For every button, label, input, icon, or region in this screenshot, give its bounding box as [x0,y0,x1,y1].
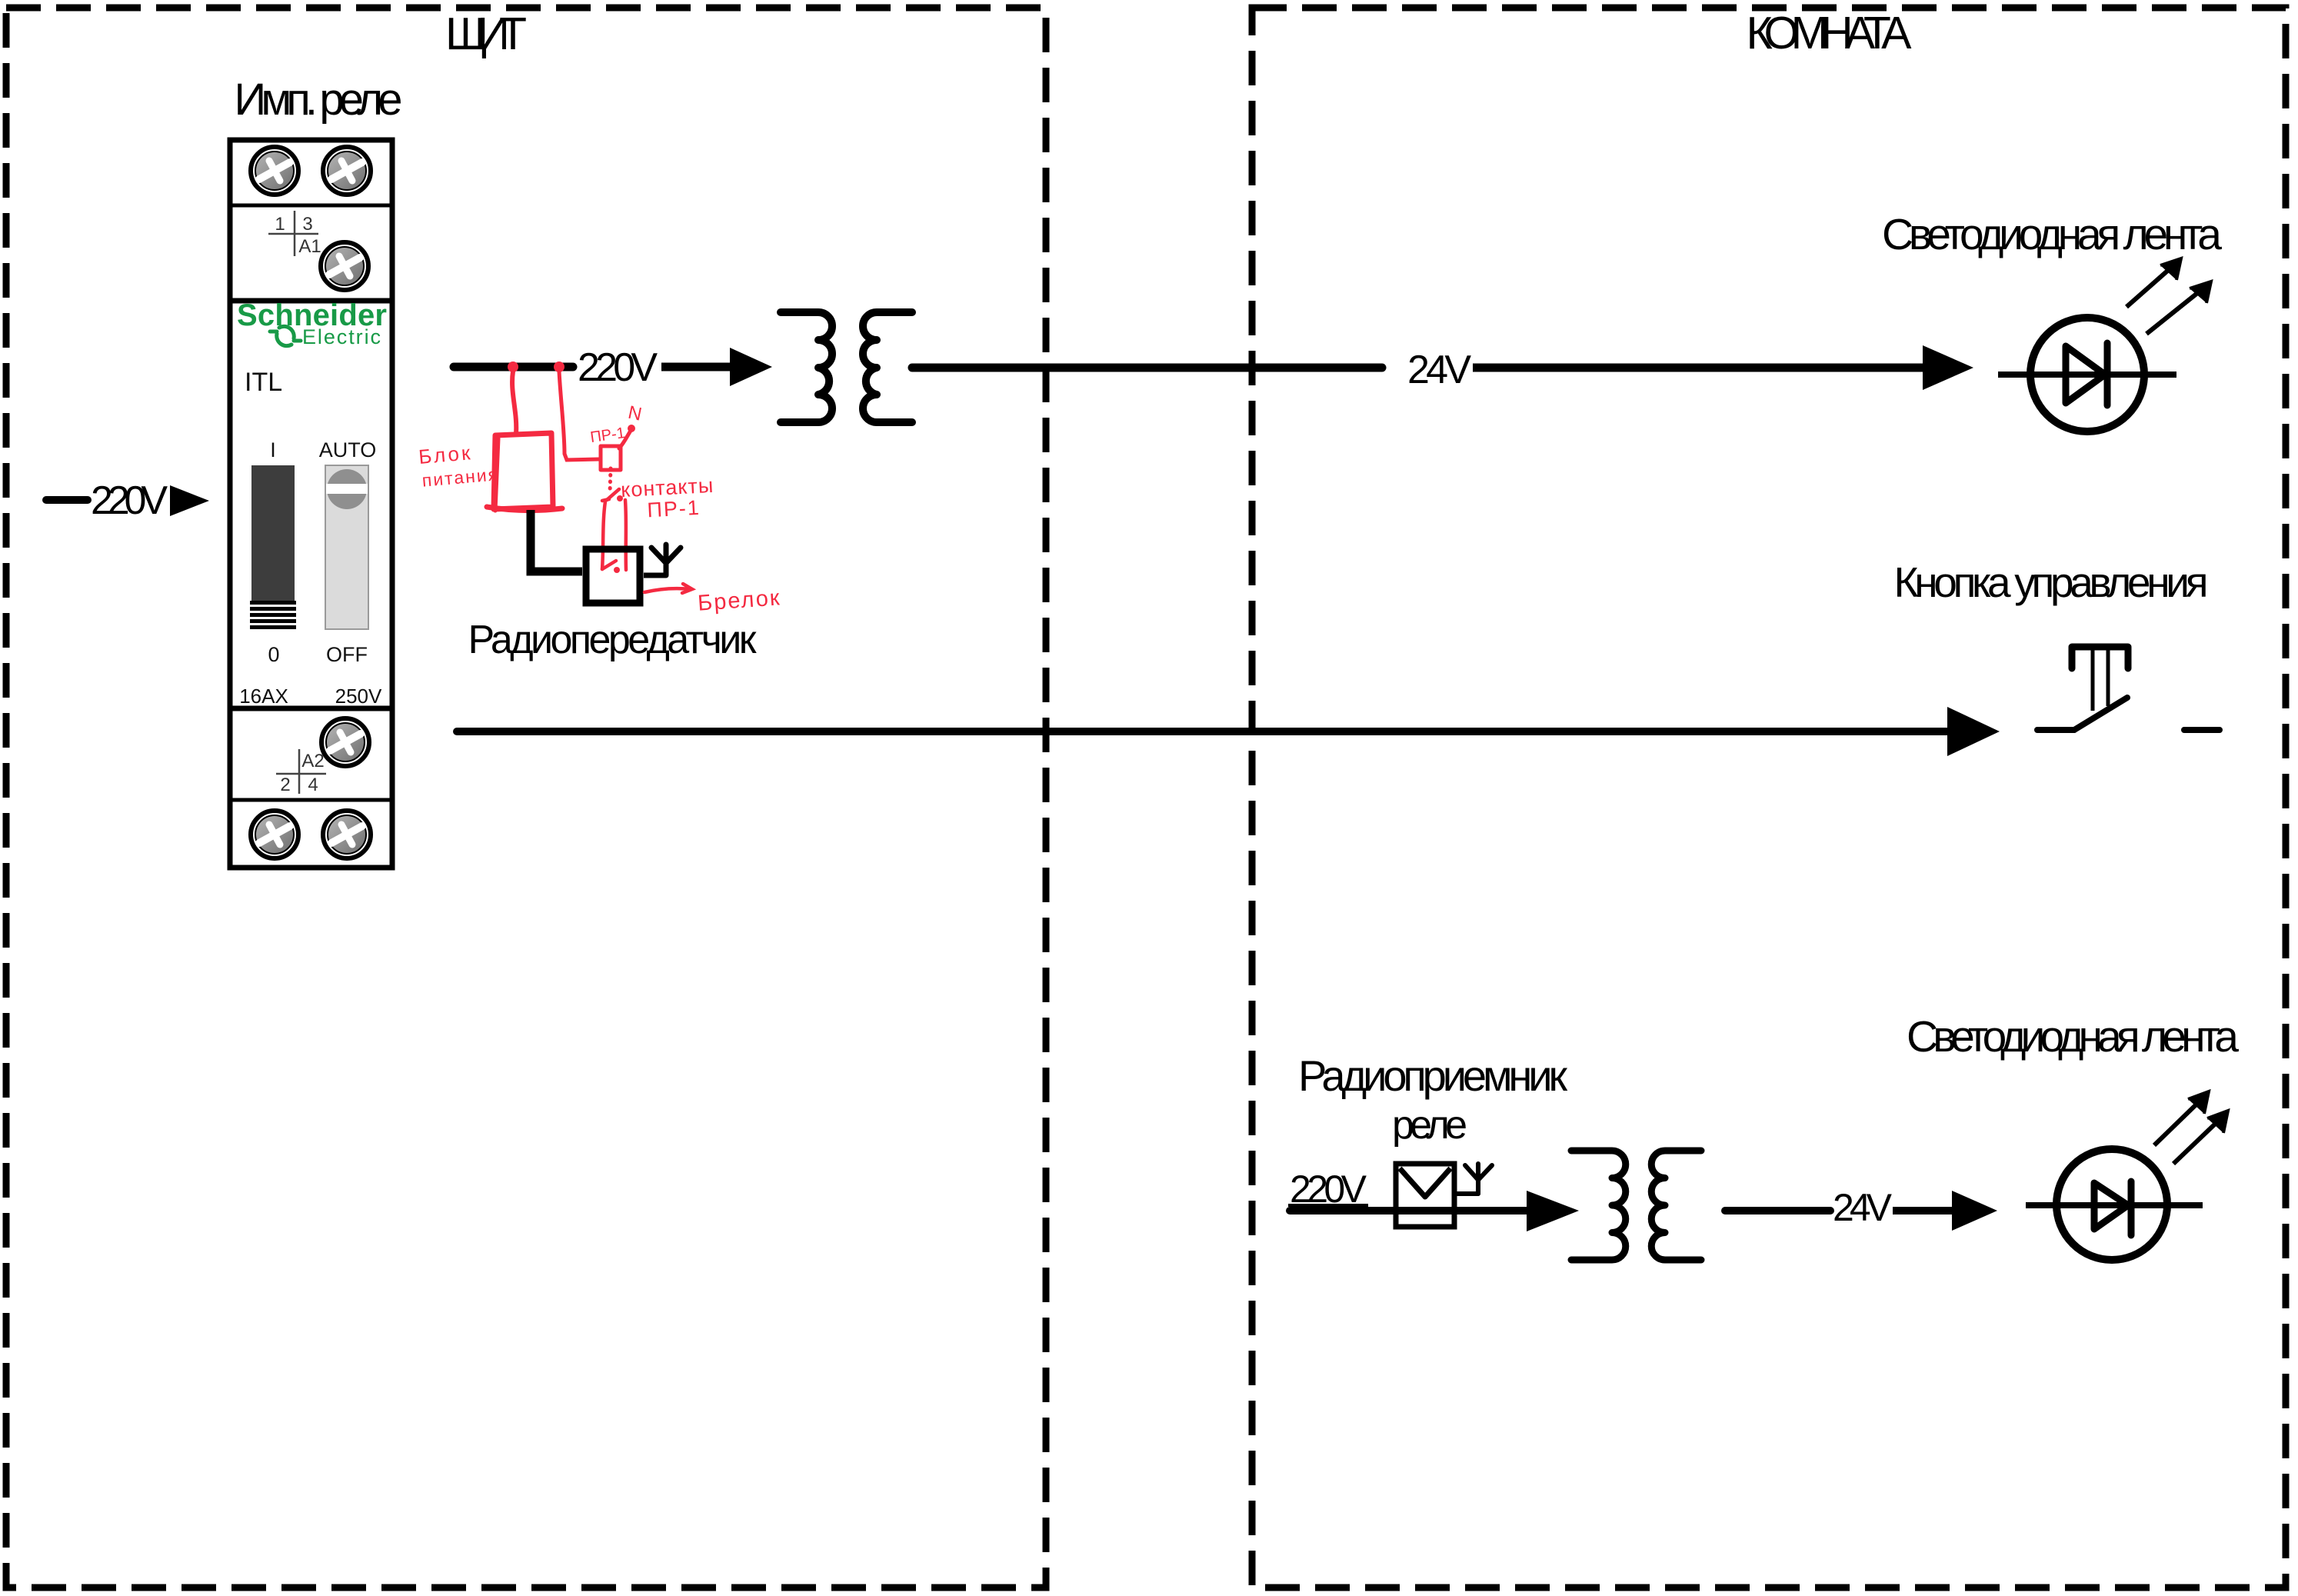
transformer T2 secondary winding [1651,1151,1701,1260]
terminal screw bottom-left [251,811,298,858]
wire segment before arrowhead [661,363,731,372]
red wire coil to N [619,431,631,448]
arrowhead into transformer [730,348,772,386]
transformer T2 primary winding [1571,1151,1626,1260]
svg-text:Радиоприемник: Радиоприемник [1298,1051,1568,1100]
power supply red wire from wire tap 1 [508,362,518,434]
relay coil PR-1 (red box) [601,446,621,470]
svg-text:3: 3 [302,214,312,235]
svg-text:Кнопка управления: Кнопка управления [1894,558,2209,606]
svg-text:4: 4 [308,775,318,795]
wire 220V from relay to transformer [454,363,573,372]
LED D1 circle [2030,318,2144,431]
LED D2 light arrow 2 [2173,1111,2228,1164]
wire segment after 24V [1473,364,1923,372]
svg-text:16AX: 16AX [239,685,288,708]
LED D1 cathode bar [2104,343,2111,405]
power supply block (red sketch) [487,433,562,511]
svg-text:24V: 24V [1833,1186,1893,1229]
svg-text:2: 2 [280,775,290,795]
svg-text:A2: A2 [301,751,324,771]
antenna (receiver) [1454,1164,1492,1194]
button stem lines [2091,647,2095,711]
terminal marking cross 1/3/A1 [268,211,318,256]
contact PR-1 (red sketch) [602,489,626,573]
button left terminal [2037,727,2074,733]
LED D2 light arrow 1 [2154,1091,2209,1145]
svg-text:Светодиодная лента: Светодиодная лента [1882,210,2222,259]
antenna (transmitter) [651,545,681,575]
svg-text:220V: 220V [578,345,658,390]
transmitter antenna feed wire [644,573,666,578]
input arrowhead [170,485,209,516]
arrowhead to LED strip 2 [1952,1191,1997,1231]
svg-text:AUTO: AUTO [319,438,377,461]
svg-text:Electric: Electric [302,325,382,348]
wire 24V from transformer [912,364,1382,372]
terminal marking cross A2/2/4 [276,749,326,794]
svg-text:реле: реле [1392,1103,1467,1148]
svg-text:Блок: Блок [418,441,473,468]
switch lever dark [250,465,296,629]
svg-text:I: I [270,438,276,461]
svg-text:КОМНАТА: КОМНАТА [1747,8,1913,58]
input wire 220V stub [46,496,88,504]
svg-text:ПР-1: ПР-1 [647,496,701,522]
wire after 24V [1893,1207,1953,1214]
LED D1 light arrow 2 [2146,282,2211,334]
LED D2 circle [2057,1149,2167,1260]
wire 220V to radio receiver [1290,1207,1527,1214]
svg-text:24V: 24V [1407,348,1471,392]
button lever [2074,698,2127,730]
wire 24V from T2 [1725,1207,1830,1214]
svg-text:220V: 220V [91,478,168,523]
push button symbol [2037,647,2220,730]
LED D2 cathode bar [2128,1181,2135,1235]
receiver envelope mark [1400,1168,1450,1197]
terminal screw bottom-right [323,811,371,858]
arrowhead to LED strip [1923,345,1973,390]
dotted red link coil to contact [610,468,611,493]
svg-text:250V: 250V [335,685,382,708]
terminal screw A2 [321,718,369,766]
wire to control button [457,728,1947,735]
enclosure КОМНАТА dashed box [1252,8,2286,1588]
svg-text:1: 1 [275,214,285,235]
LED D2 through line [2026,1202,2203,1208]
svg-text:OFF: OFF [326,643,368,666]
LED D1 light arrow 1 [2126,258,2181,307]
label Блок питания (red) [418,438,500,491]
auto slider [325,465,368,629]
radio transmitter box [586,549,640,603]
svg-text:Радиопередатчик: Радиопередатчик [468,618,757,662]
transformer T1 secondary winding [863,312,912,422]
svg-text:0: 0 [268,643,279,666]
svg-text:Имп. реле: Имп. реле [235,75,403,125]
terminal screw top-right [323,147,371,195]
node N (red) [628,425,635,432]
red wire tap 2 to PR-1 coil [554,362,599,460]
svg-text:ITL: ITL [245,368,282,397]
impulse relay ITL device body [230,140,392,868]
arrowhead into transformer T2 [1527,1191,1579,1231]
radio receiver box [1396,1164,1454,1227]
terminal screw top-left [251,147,298,195]
label контакты ПР-1 (red) [620,474,715,523]
LED D1 diode triangle [2066,346,2105,403]
transformer T1 primary winding [781,312,832,422]
Schneider SE emblem [270,326,301,345]
LED D1 through line [1998,372,2176,378]
button right terminal [2184,727,2220,733]
arrowhead to button [1947,707,2000,756]
svg-text:Светодиодная лента: Светодиодная лента [1907,1012,2239,1061]
svg-text:A1: A1 [298,236,321,257]
terminal screw A1 [321,242,368,290]
red arrow to Брелок [644,584,692,593]
button plunger cap [2072,647,2128,668]
enclosure ЩИТ dashed box [6,8,1046,1588]
svg-text:ЩИТ: ЩИТ [445,8,527,59]
LED D2 diode triangle [2094,1183,2128,1229]
black wire power supply to transmitter [531,510,582,571]
